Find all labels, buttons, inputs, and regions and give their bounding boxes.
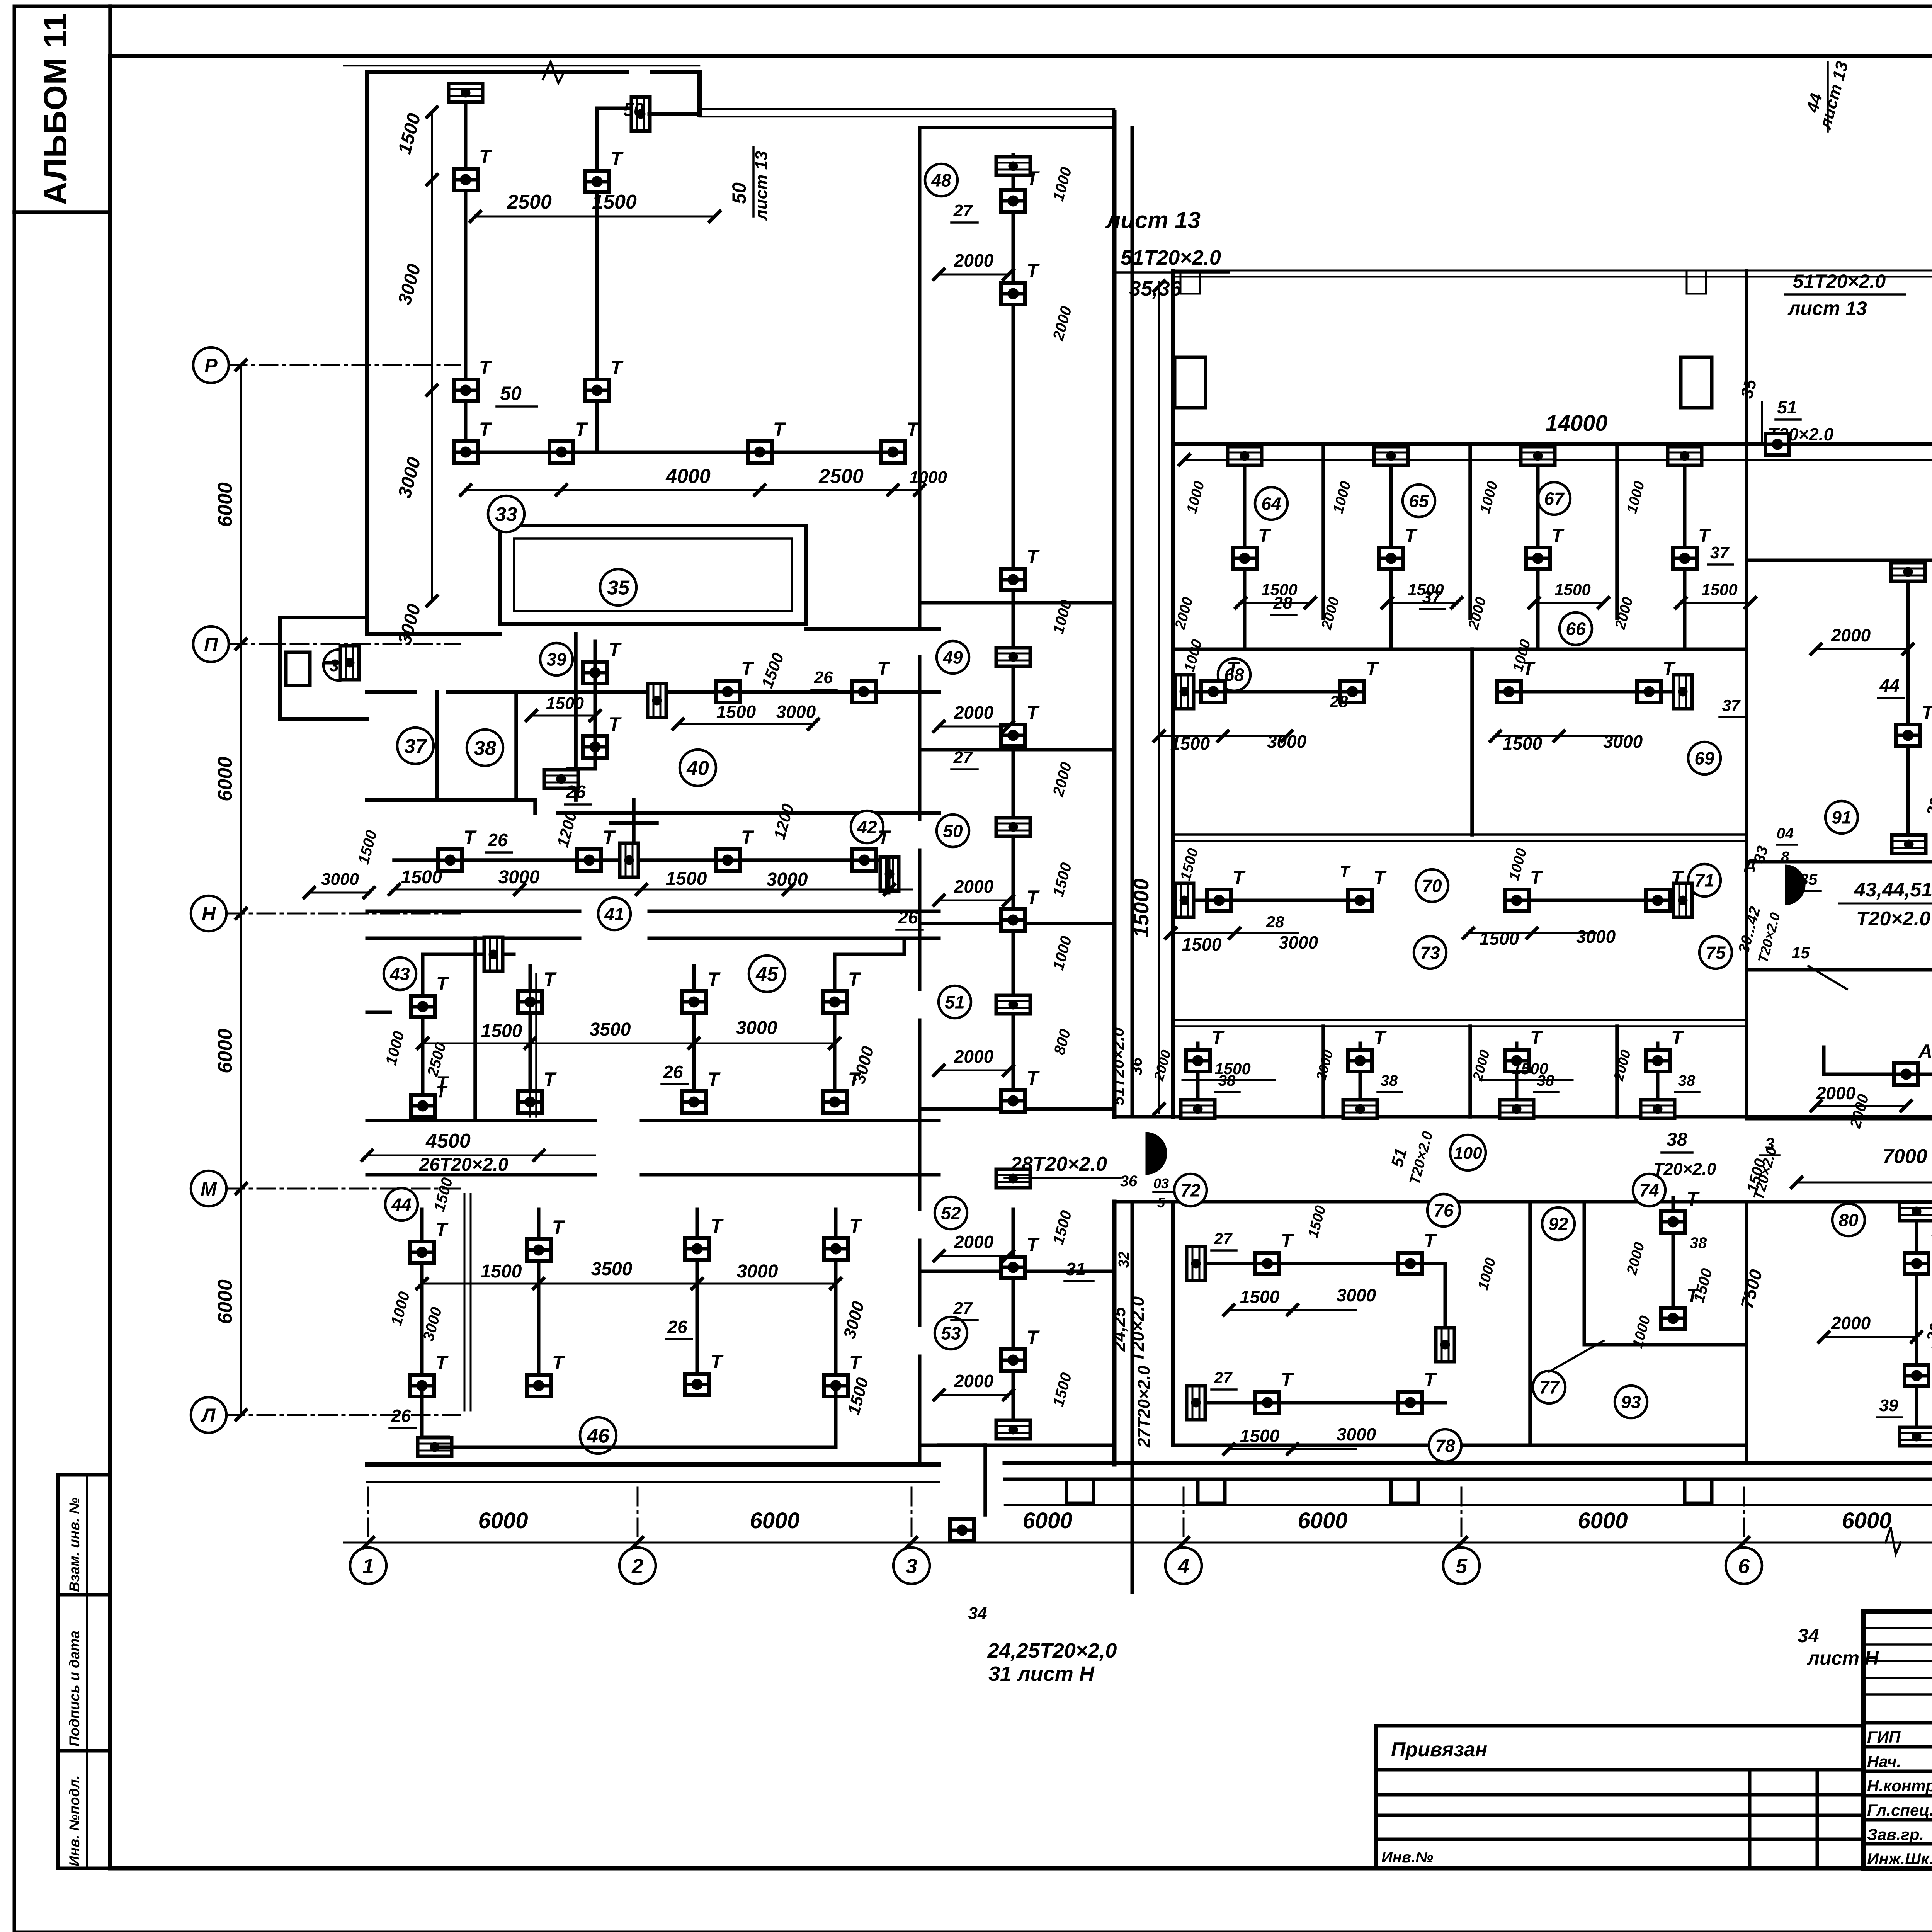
svg-text:1500: 1500 [716, 702, 756, 722]
svg-text:2000: 2000 [954, 1232, 994, 1252]
svg-text:Т: Т [1405, 525, 1418, 546]
svg-text:Т: Т [773, 418, 787, 440]
svg-text:Т: Т [1211, 1027, 1225, 1049]
svg-text:1500: 1500 [1214, 1060, 1250, 1078]
svg-text:Т: Т [1930, 1342, 1932, 1364]
svg-text:93: 93 [1621, 1392, 1641, 1412]
svg-text:Л: Л [201, 1405, 216, 1426]
svg-text:73: 73 [1420, 943, 1440, 963]
svg-text:1500: 1500 [1512, 1060, 1548, 1078]
svg-text:39: 39 [1879, 1396, 1898, 1415]
svg-text:41: 41 [604, 904, 624, 924]
svg-text:Т: Т [479, 146, 493, 168]
svg-text:1500: 1500 [1182, 934, 1222, 954]
svg-text:Т: Т [436, 973, 450, 995]
svg-text:А: А [1918, 1041, 1932, 1062]
svg-text:Т: Т [1551, 525, 1565, 546]
svg-text:46: 46 [587, 1425, 610, 1447]
svg-text:Т: Т [1027, 886, 1040, 908]
svg-text:Т: Т [544, 968, 557, 990]
svg-text:27: 27 [953, 1299, 973, 1318]
svg-text:Гл.спец.: Гл.спец. [1867, 1801, 1932, 1819]
svg-text:24,25: 24,25 [1109, 1306, 1129, 1352]
svg-text:71: 71 [1694, 871, 1714, 891]
svg-text:3500: 3500 [590, 1019, 631, 1040]
svg-text:03: 03 [1153, 1175, 1169, 1191]
svg-text:50: 50 [728, 182, 750, 204]
svg-text:Привязан: Привязан [1391, 1738, 1487, 1761]
svg-text:27: 27 [953, 748, 973, 767]
svg-text:Инв.№: Инв.№ [1381, 1849, 1433, 1866]
svg-text:2000: 2000 [954, 1046, 994, 1066]
svg-text:1500: 1500 [1170, 733, 1210, 753]
svg-text:76: 76 [1434, 1201, 1454, 1221]
svg-text:2000: 2000 [954, 250, 994, 270]
svg-text:Т: Т [877, 658, 891, 680]
svg-text:Т: Т [849, 1352, 863, 1374]
svg-text:Т: Т [1258, 525, 1272, 546]
svg-text:3000: 3000 [1603, 731, 1643, 752]
svg-text:1500: 1500 [1240, 1287, 1280, 1307]
svg-text:Т: Т [1424, 1230, 1437, 1252]
svg-text:53: 53 [941, 1323, 961, 1344]
svg-text:Т: Т [1027, 1234, 1040, 1255]
svg-text:6000: 6000 [1842, 1508, 1891, 1533]
svg-text:Т: Т [603, 827, 616, 848]
svg-text:3000: 3000 [1267, 731, 1307, 752]
svg-text:Т: Т [1227, 658, 1240, 680]
svg-text:Т: Т [1374, 867, 1387, 888]
svg-text:Т: Т [1922, 702, 1932, 723]
svg-text:6000: 6000 [750, 1508, 799, 1533]
svg-text:3: 3 [906, 1554, 917, 1578]
svg-text:67: 67 [1544, 489, 1565, 509]
svg-text:2000: 2000 [954, 876, 994, 896]
svg-text:75: 75 [1706, 943, 1726, 963]
svg-text:Р: Р [204, 355, 218, 376]
svg-text:4000: 4000 [665, 465, 711, 488]
svg-text:1500: 1500 [1240, 1426, 1280, 1446]
svg-text:1500: 1500 [666, 869, 707, 889]
svg-text:Т: Т [1671, 867, 1685, 888]
svg-text:37: 37 [1422, 588, 1442, 607]
svg-text:1500: 1500 [546, 694, 584, 713]
svg-text:66: 66 [1566, 619, 1586, 639]
svg-text:6: 6 [1738, 1554, 1750, 1578]
svg-text:27: 27 [1214, 1369, 1233, 1387]
svg-text:Т: Т [707, 1068, 721, 1090]
svg-text:32: 32 [1116, 1252, 1132, 1268]
svg-text:2: 2 [631, 1554, 643, 1578]
svg-text:Т: Т [1340, 862, 1351, 881]
svg-text:26: 26 [898, 907, 918, 927]
svg-text:15000: 15000 [1129, 878, 1153, 937]
svg-text:26: 26 [663, 1062, 683, 1082]
svg-text:Инв. №подл.: Инв. №подл. [66, 1775, 82, 1866]
svg-text:Т: Т [464, 827, 477, 848]
svg-text:Т: Т [1027, 260, 1040, 282]
svg-text:7000: 7000 [1883, 1145, 1927, 1168]
svg-text:38: 38 [474, 737, 496, 760]
svg-text:26Т20×2.0: 26Т20×2.0 [419, 1155, 509, 1175]
svg-text:Т: Т [575, 418, 588, 440]
svg-text:Т: Т [544, 1068, 557, 1090]
svg-text:51Т20×2.0: 51Т20×2.0 [1793, 270, 1886, 292]
svg-text:М: М [201, 1178, 217, 1200]
svg-text:28: 28 [1330, 692, 1348, 711]
svg-text:51: 51 [945, 992, 964, 1012]
svg-text:27: 27 [953, 201, 973, 220]
svg-text:6000: 6000 [478, 1508, 528, 1533]
svg-text:31 лист Н: 31 лист Н [988, 1662, 1095, 1685]
svg-text:2000: 2000 [1831, 625, 1871, 645]
svg-text:6000: 6000 [214, 1279, 236, 1324]
svg-text:51: 51 [1777, 397, 1797, 417]
svg-text:72: 72 [1180, 1180, 1201, 1201]
svg-text:лист 13: лист 13 [1787, 298, 1867, 319]
svg-text:Т: Т [609, 639, 622, 661]
svg-text:Подпись и дата: Подпись и дата [66, 1631, 82, 1747]
svg-text:Т: Т [1663, 658, 1676, 680]
svg-text:3000: 3000 [767, 869, 808, 890]
svg-text:3000: 3000 [736, 1018, 777, 1038]
svg-text:100: 100 [1454, 1144, 1482, 1163]
svg-text:Т: Т [479, 418, 493, 440]
svg-text:38: 38 [1690, 1235, 1707, 1252]
svg-text:45: 45 [755, 963, 779, 986]
svg-text:Т: Т [609, 713, 622, 735]
svg-text:3000: 3000 [321, 870, 359, 889]
svg-text:лист 13: лист 13 [1105, 207, 1201, 233]
svg-text:36: 36 [1120, 1173, 1138, 1190]
svg-text:Т: Т [711, 1351, 724, 1372]
svg-text:Т: Т [1233, 867, 1246, 888]
svg-text:2000: 2000 [954, 1371, 994, 1391]
svg-text:39: 39 [546, 650, 566, 670]
svg-text:3000: 3000 [776, 702, 816, 722]
svg-text:26: 26 [667, 1317, 687, 1337]
svg-text:Т: Т [1530, 1027, 1544, 1049]
svg-text:Т: Т [1424, 1369, 1437, 1391]
svg-text:50: 50 [623, 100, 644, 120]
svg-text:35: 35 [607, 577, 630, 599]
svg-text:28: 28 [1266, 913, 1284, 931]
svg-text:Т: Т [1281, 1230, 1294, 1252]
svg-text:Т: Т [435, 1219, 449, 1240]
svg-text:28: 28 [1273, 594, 1293, 612]
svg-text:Т20×2.0: Т20×2.0 [1128, 1296, 1148, 1362]
svg-text:1500: 1500 [1701, 580, 1737, 599]
svg-text:Т: Т [878, 827, 891, 848]
svg-text:3000: 3000 [1279, 932, 1318, 952]
svg-text:50: 50 [500, 383, 522, 404]
svg-text:37: 37 [1710, 543, 1730, 562]
svg-text:6000: 6000 [1578, 1508, 1628, 1533]
svg-text:1: 1 [362, 1554, 374, 1578]
svg-text:Т: Т [1698, 525, 1712, 546]
svg-text:38: 38 [1667, 1129, 1687, 1150]
svg-text:3000: 3000 [1576, 927, 1616, 947]
svg-text:14000: 14000 [1545, 411, 1607, 436]
svg-text:50: 50 [943, 821, 963, 841]
svg-text:2000: 2000 [1831, 1313, 1871, 1333]
svg-text:Т: Т [1366, 658, 1379, 680]
svg-text:80: 80 [1838, 1210, 1859, 1230]
svg-text:8: 8 [1781, 849, 1789, 865]
svg-text:1500: 1500 [481, 1021, 522, 1041]
svg-text:33: 33 [495, 503, 517, 526]
svg-text:Т: Т [611, 148, 624, 170]
svg-text:Т: Т [436, 1082, 448, 1101]
svg-text:Т: Т [1530, 867, 1544, 888]
svg-text:31: 31 [1066, 1259, 1085, 1279]
svg-text:5: 5 [1456, 1554, 1468, 1578]
svg-text:74: 74 [1639, 1180, 1659, 1201]
svg-text:43,44,51: 43,44,51 [1854, 879, 1932, 901]
svg-text:37: 37 [404, 735, 427, 758]
svg-text:АЛЬБОМ 11: АЛЬБОМ 11 [37, 13, 73, 205]
svg-text:51Т20×2.0: 51Т20×2.0 [1121, 246, 1221, 269]
svg-text:Т: Т [741, 658, 755, 680]
svg-text:6000: 6000 [214, 1029, 236, 1073]
svg-text:38: 38 [1678, 1072, 1696, 1089]
svg-text:24,25Т20×2,0: 24,25Т20×2,0 [987, 1639, 1117, 1662]
svg-text:91: 91 [1832, 808, 1851, 828]
svg-text:3000: 3000 [498, 867, 540, 888]
svg-text:51Т20×2.0: 51Т20×2.0 [1109, 1027, 1127, 1105]
svg-text:Т20×2.0: Т20×2.0 [1856, 908, 1930, 930]
svg-text:37: 37 [1722, 696, 1741, 714]
svg-text:Н.контр.: Н.контр. [1867, 1777, 1932, 1795]
svg-text:2500: 2500 [507, 191, 552, 213]
svg-text:Т: Т [552, 1216, 566, 1238]
svg-text:28Т20×2.0: 28Т20×2.0 [1010, 1153, 1107, 1175]
svg-text:лист Н: лист Н [1807, 1647, 1879, 1669]
svg-text:64: 64 [1261, 494, 1281, 514]
svg-text:35: 35 [1799, 870, 1818, 888]
svg-text:Т: Т [1671, 1027, 1685, 1049]
svg-text:П: П [204, 634, 218, 655]
svg-text:Взам. инв. №: Взам. инв. № [66, 1498, 82, 1592]
svg-text:Т: Т [1930, 1230, 1932, 1252]
svg-text:Т: Т [1374, 1027, 1387, 1049]
svg-text:6000: 6000 [1022, 1508, 1072, 1533]
svg-text:43: 43 [389, 964, 410, 984]
svg-text:6000: 6000 [214, 482, 236, 527]
svg-text:Т: Т [435, 1352, 449, 1374]
svg-text:69: 69 [1694, 748, 1714, 769]
svg-text:27Т20×2.0: 27Т20×2.0 [1134, 1366, 1153, 1448]
svg-text:Т: Т [906, 418, 920, 440]
svg-text:Т: Т [1687, 1188, 1700, 1210]
svg-text:26: 26 [391, 1406, 411, 1426]
svg-text:65: 65 [1409, 491, 1429, 511]
svg-text:49: 49 [942, 648, 963, 668]
svg-text:Зав.гр.: Зав.гр. [1867, 1825, 1924, 1844]
svg-text:Т: Т [1027, 702, 1040, 723]
svg-text:ГИП: ГИП [1867, 1728, 1901, 1746]
svg-text:1500: 1500 [1503, 733, 1543, 753]
svg-text:3000: 3000 [1337, 1424, 1376, 1444]
svg-text:27: 27 [1214, 1230, 1233, 1248]
svg-text:Т: Т [552, 1352, 566, 1374]
svg-text:6000: 6000 [1298, 1508, 1347, 1533]
svg-text:40: 40 [686, 757, 709, 780]
svg-text:1500: 1500 [481, 1261, 522, 1282]
svg-text:Т: Т [1027, 546, 1040, 568]
svg-text:1500: 1500 [401, 867, 442, 888]
svg-text:Т: Т [711, 1215, 724, 1237]
svg-text:Т20×2.0: Т20×2.0 [1653, 1160, 1716, 1179]
svg-text:1500: 1500 [592, 191, 637, 213]
svg-text:38: 38 [1381, 1072, 1398, 1089]
svg-text:34: 34 [1798, 1625, 1819, 1646]
svg-text:2000: 2000 [954, 702, 994, 723]
svg-text:Т: Т [1027, 1327, 1040, 1348]
svg-text:26: 26 [814, 668, 833, 687]
svg-text:92: 92 [1548, 1214, 1568, 1234]
svg-text:44: 44 [1879, 675, 1899, 696]
svg-text:1500: 1500 [1554, 580, 1590, 599]
svg-text:Т: Т [479, 357, 493, 378]
svg-text:Т: Т [707, 968, 721, 990]
svg-text:42: 42 [857, 817, 877, 837]
svg-text:Т: Т [611, 357, 624, 378]
svg-text:Т: Т [1281, 1369, 1294, 1391]
svg-text:1000: 1000 [909, 468, 947, 487]
svg-text:Т: Т [849, 1215, 863, 1237]
svg-text:48: 48 [931, 170, 951, 190]
svg-text:Т: Т [1027, 1067, 1040, 1089]
svg-text:78: 78 [1435, 1436, 1455, 1456]
svg-text:3000: 3000 [737, 1261, 778, 1282]
svg-text:1500: 1500 [1480, 929, 1519, 949]
svg-text:Н: Н [202, 903, 216, 925]
svg-text:Т: Т [848, 968, 862, 990]
svg-text:26: 26 [487, 830, 508, 850]
svg-text:70: 70 [1422, 876, 1442, 896]
svg-text:4: 4 [1177, 1554, 1189, 1578]
svg-text:15: 15 [1792, 944, 1810, 962]
svg-text:52: 52 [941, 1203, 961, 1223]
svg-text:Т: Т [741, 827, 755, 848]
svg-text:Инж.Шк.: Инж.Шк. [1867, 1850, 1932, 1868]
svg-text:77: 77 [1539, 1378, 1560, 1398]
svg-text:34: 34 [968, 1604, 987, 1623]
svg-text:3000: 3000 [1337, 1285, 1376, 1305]
svg-text:36: 36 [1127, 1057, 1145, 1075]
svg-text:04: 04 [1777, 825, 1794, 842]
svg-text:2500: 2500 [818, 465, 864, 488]
svg-text:26: 26 [565, 782, 586, 802]
svg-text:лист 13: лист 13 [752, 151, 771, 221]
svg-text:3500: 3500 [591, 1259, 633, 1279]
svg-text:44: 44 [391, 1195, 411, 1215]
svg-text:Нач.: Нач. [1867, 1752, 1901, 1770]
svg-text:4500: 4500 [425, 1130, 471, 1152]
svg-text:6000: 6000 [214, 757, 236, 801]
